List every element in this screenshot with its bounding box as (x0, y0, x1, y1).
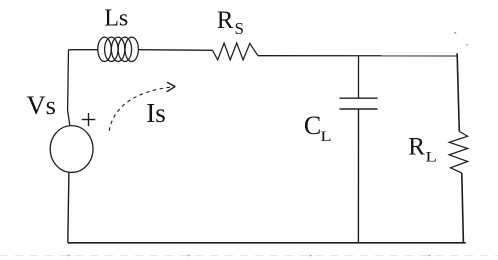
svg-text:R: R (217, 7, 234, 34)
wire: top-left horizontal segment (69, 49, 99, 51)
svg-text:R: R (408, 133, 425, 160)
svg-text:L: L (426, 148, 437, 165)
wire: bottom horizontal segment (68, 242, 466, 244)
svg-text:C: C (304, 111, 321, 140)
wire: capacitor branch lower vertical (357, 109, 359, 243)
resistor RS (213, 43, 258, 60)
wire: left vertical lower segment (68, 173, 69, 243)
capacitor CL (340, 98, 378, 109)
speck top right (454, 32, 456, 34)
svg-text:Vs: Vs (27, 90, 56, 120)
faint specks on scan line (67, 255, 431, 256)
faint scan line at bottom (0, 255, 498, 257)
wire: top middle horizontal segment (139, 49, 213, 52)
svg-text:Ls: Ls (104, 5, 128, 31)
svg-text:S: S (235, 19, 244, 38)
svg-text:L: L (321, 127, 332, 144)
svg-text:Is: Is (146, 98, 166, 128)
wire: top right horizontal segment (258, 55, 457, 57)
resistor RL (449, 132, 468, 174)
current arrow Is (dashed arc) (109, 87, 175, 131)
arrowhead of Is (167, 82, 176, 92)
wire: left vertical upper segment (68, 50, 70, 126)
wire: right vertical upper segment (457, 53, 459, 131)
wire: capacitor branch upper vertical (358, 56, 360, 98)
voltage source Vs (50, 126, 93, 173)
inductor Ls (98, 37, 139, 61)
speck near corner (466, 44, 468, 46)
plus sign of source polarity (82, 113, 96, 126)
wire: right vertical lower segment (462, 173, 464, 243)
